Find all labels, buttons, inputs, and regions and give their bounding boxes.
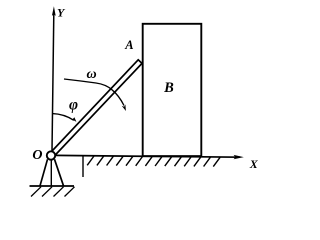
support center post	[50, 160, 52, 186]
axis X arrowhead	[234, 155, 244, 159]
ground hatching	[87, 156, 220, 167]
axis Y arrowhead	[52, 6, 56, 16]
svg-text:A: A	[124, 38, 133, 52]
support triangle left leg	[40, 159, 48, 186]
support base hatching	[31, 187, 75, 197]
phi arrowhead	[70, 117, 76, 122]
support triangle right leg	[55, 159, 64, 186]
svg-text:X: X	[249, 157, 259, 171]
support base line	[30, 185, 75, 187]
block B	[143, 24, 202, 156]
pivot pin circle at O	[47, 151, 55, 159]
axis Y line	[52, 14, 54, 151]
phi angle arc	[52, 114, 73, 121]
svg-text:ω: ω	[87, 67, 97, 82]
step edge line below ground	[82, 156, 84, 177]
svg-text:φ: φ	[69, 96, 78, 113]
axis X / ground line	[56, 155, 241, 157]
omega rotation arc	[64, 79, 124, 106]
svg-text:B: B	[163, 80, 174, 96]
svg-text:O: O	[32, 148, 42, 163]
rod OA	[49, 60, 142, 157]
omega arrowhead	[122, 105, 126, 112]
